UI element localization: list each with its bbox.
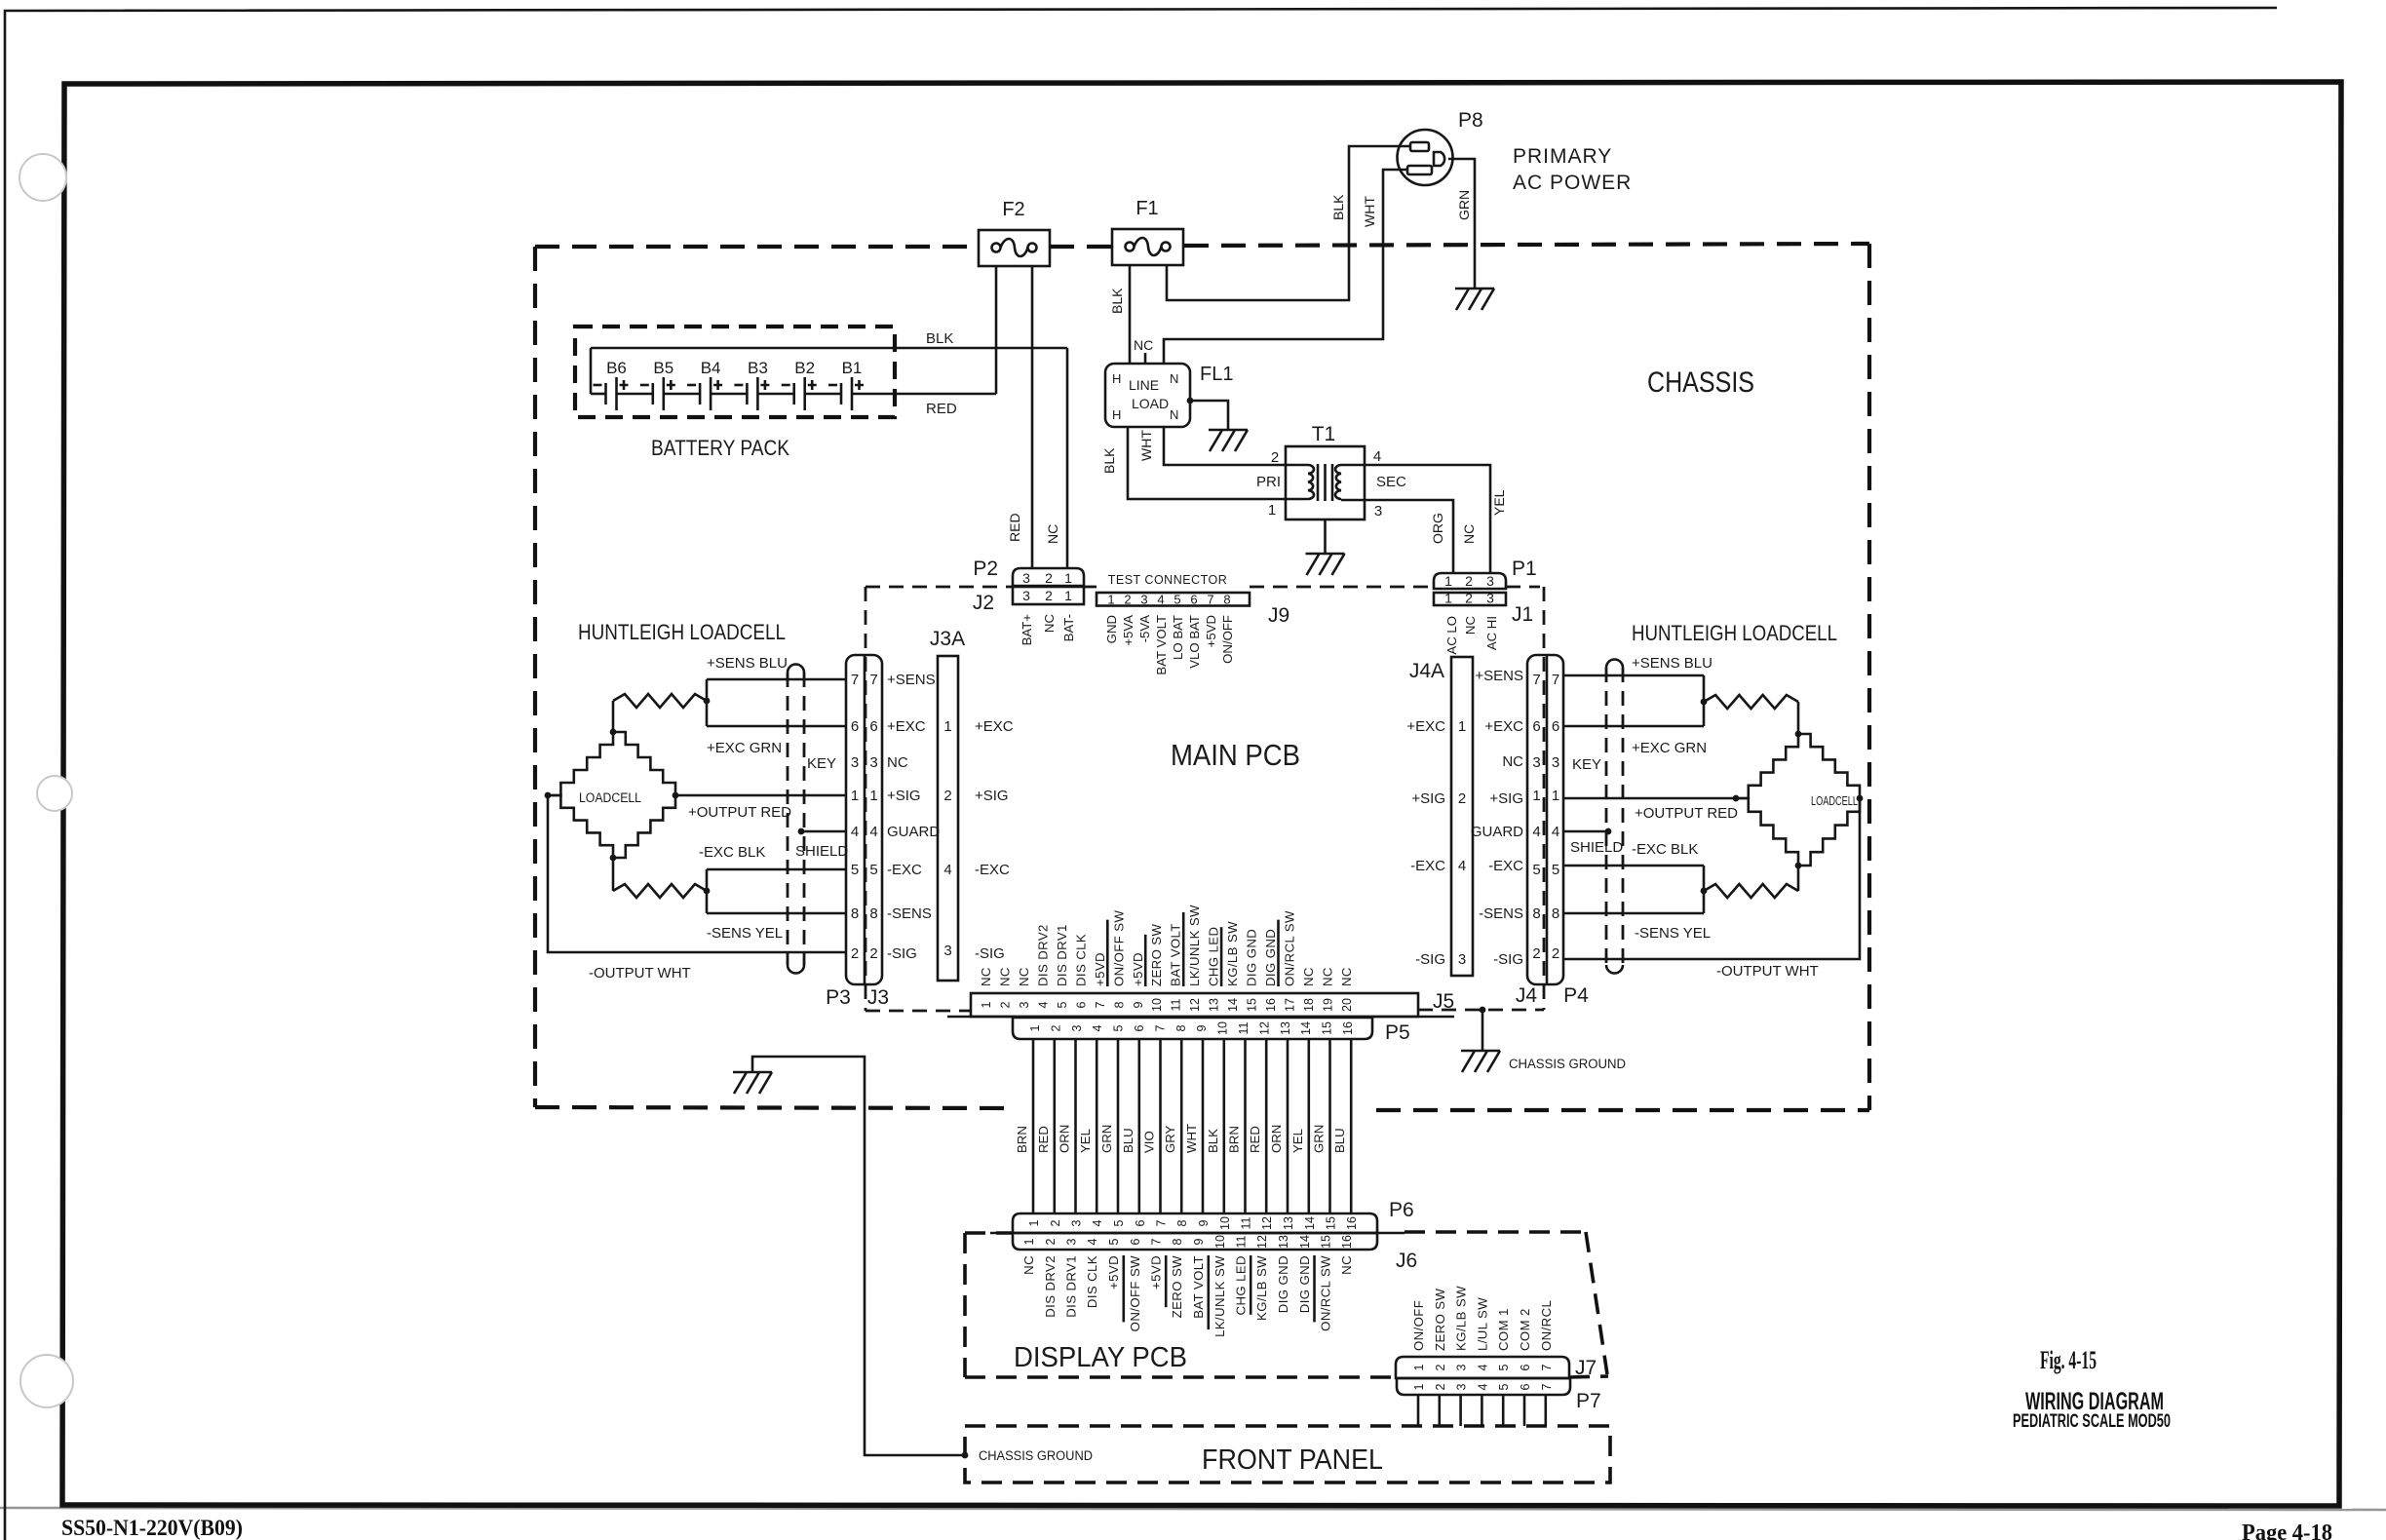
svg-text:+SENS BLU: +SENS BLU [1632,655,1713,672]
svg-text:1: 1 [943,718,951,735]
battery cell B3 [746,383,749,404]
svg-text:NC: NC [998,967,1013,986]
svg-text:NC: NC [1502,753,1523,770]
wire P5-10 to P6-10 (BLK) [1223,1039,1226,1213]
svg-text:+5VD: +5VD [1149,1255,1164,1290]
T1 primary winding [1308,465,1314,499]
T1 core [1317,464,1320,501]
svg-text:10: 10 [1218,1216,1232,1230]
AC plug P8 [1398,130,1453,185]
svg-text:3: 3 [1070,1024,1084,1031]
svg-text:8: 8 [851,905,859,922]
chassis ground junction dot on boundary [1480,1007,1486,1014]
svg-text:5: 5 [1112,1219,1126,1226]
svg-text:-SENS: -SENS [887,905,932,922]
wire P5-15 to P6-15 (GRN) [1328,1039,1331,1213]
svg-text:GRN: GRN [1099,1125,1114,1153]
battery cell B6 [604,383,607,404]
svg-text:12: 12 [1188,998,1202,1012]
svg-text:LOAD: LOAD [1132,396,1169,411]
svg-text:5: 5 [851,862,859,878]
svg-text:AC LO: AC LO [1444,616,1459,655]
wire +OUTPUT RED (right) [1563,797,1736,800]
ground symbol main PCB left [733,1071,772,1074]
fuse F2 [979,230,1050,266]
T1 secondary winding [1335,465,1341,499]
svg-text:-SIG: -SIG [887,945,917,962]
svg-text:5: 5 [1497,1364,1511,1370]
svg-text:5: 5 [1056,1001,1069,1008]
svg-text:PRI: PRI [1256,474,1281,490]
battery cell B4 [699,383,702,404]
svg-text:+SENS: +SENS [887,672,936,688]
svg-text:3: 3 [1455,1383,1469,1390]
svg-text:2: 2 [1465,591,1473,606]
svg-text:DIS DRV2: DIS DRV2 [1035,924,1050,986]
svg-text:DISPLAY PCB: DISPLAY PCB [1014,1342,1187,1373]
wire -OUTPUT WHT (right) [1563,798,1860,959]
svg-text:DIG GND: DIG GND [1263,929,1278,986]
svg-text:17: 17 [1284,998,1297,1012]
svg-text:4: 4 [1476,1364,1489,1370]
svg-text:SS50-N1-220V(B09): SS50-N1-220V(B09) [61,1516,243,1540]
svg-text:+EXC GRN: +EXC GRN [1632,740,1707,756]
connector P3/J3 (left) [846,655,882,984]
svg-text:7: 7 [851,672,859,688]
wire +EXC GRN (left) [707,725,846,728]
svg-text:2: 2 [1049,1219,1062,1226]
svg-text:RED: RED [1248,1126,1262,1153]
svg-text:P1: P1 [1512,558,1537,580]
svg-text:4: 4 [1552,824,1559,840]
wire GUARD / SHIELD (right) [1563,830,1608,833]
wire -EXC BLK (left) [707,868,846,871]
svg-text:11: 11 [1235,1235,1249,1248]
wire P5-7 to P6-7 (VIO) [1159,1039,1162,1213]
svg-text:H: H [1112,371,1121,386]
wire +SENS BLU (left) [707,678,846,681]
wire main PCB ground to front panel chassis ground [752,1057,965,1455]
wire P5-12 to P6-12 (RED) [1265,1039,1268,1213]
svg-text:2: 2 [869,945,877,962]
svg-text:COM 2: COM 2 [1518,1308,1532,1351]
svg-text:COM 1: COM 1 [1496,1308,1511,1351]
svg-text:4: 4 [943,862,951,878]
connector J3A [938,656,958,981]
svg-text:Fig. 4-15: Fig. 4-15 [2040,1346,2097,1374]
svg-text:MAIN PCB: MAIN PCB [1171,738,1300,772]
svg-text:J4A: J4A [1409,660,1444,682]
wire +EXC GRN (right) [1563,725,1704,728]
svg-text:2: 2 [999,1001,1013,1008]
svg-text:6: 6 [1552,718,1559,735]
svg-text:1: 1 [1444,591,1452,606]
svg-text:NC: NC [1045,524,1060,544]
wire P5-16 to P6-16 (BLU) [1350,1039,1353,1213]
chassis enclosure dashed box [535,245,979,249]
svg-text:P7: P7 [1576,1390,1601,1412]
svg-text:L/UL SW: L/UL SW [1475,1297,1489,1351]
svg-text:BAT VOLT: BAT VOLT [1154,615,1169,675]
test connector J9 [1097,593,1250,606]
svg-text:1: 1 [1458,718,1466,735]
svg-text:NC: NC [1301,967,1316,986]
svg-text:NC: NC [1042,614,1057,634]
svg-text:CHASSIS GROUND: CHASSIS GROUND [1509,1057,1626,1071]
svg-text:+SENS BLU: +SENS BLU [707,655,788,672]
svg-text:B5: B5 [653,359,673,377]
wire FL1 N load to T1 pin2 (WHT) [1164,427,1308,465]
binder hole top [19,154,66,201]
svg-text:LO BAT: LO BAT [1171,615,1185,660]
battery interconnect wire [664,393,700,396]
svg-text:ON/RCL SW: ON/RCL SW [1319,1255,1333,1331]
svg-text:ON/OFF: ON/OFF [1220,615,1235,664]
svg-text:J3A: J3A [930,628,965,650]
svg-text:11: 11 [1237,1021,1251,1034]
wire F1 left terminal to FL1 (BLK) [1129,266,1132,364]
wire F2 left terminal to battery RED [995,266,998,394]
svg-text:P8: P8 [1458,109,1483,132]
svg-text:B1: B1 [842,359,863,377]
svg-text:15: 15 [1321,1021,1334,1035]
svg-text:7: 7 [1552,672,1559,688]
svg-text:DIG GND: DIG GND [1297,1255,1312,1313]
ground symbol at FL1 [1209,429,1248,432]
svg-text:5: 5 [1174,593,1180,607]
svg-text:+OUTPUT RED: +OUTPUT RED [688,804,791,821]
svg-text:-EXC: -EXC [1410,858,1445,874]
svg-text:3: 3 [1374,503,1382,520]
svg-text:T1: T1 [1312,423,1336,445]
svg-text:8: 8 [1175,1219,1189,1226]
svg-text:-SENS YEL: -SENS YEL [1635,925,1711,942]
svg-text:8: 8 [1223,593,1230,607]
svg-text:18: 18 [1302,998,1316,1012]
wire T1 secondary pin3 to P1 pin1 (ORG) [1341,500,1453,573]
svg-text:RED: RED [1036,1126,1051,1153]
svg-text:CHG LED: CHG LED [1234,1255,1249,1315]
svg-text:4: 4 [851,824,859,840]
display PCB dashed box [965,1231,1013,1235]
svg-text:J7: J7 [1575,1357,1597,1379]
svg-text:6: 6 [1519,1383,1532,1390]
svg-text:1: 1 [1444,573,1452,589]
svg-text:4: 4 [1091,1219,1104,1226]
svg-text:7: 7 [1153,1024,1167,1031]
battery interconnect wire [805,393,841,396]
svg-text:2: 2 [851,945,859,962]
wire P5-11 to P6-11 (BRN) [1244,1039,1247,1213]
svg-text:+5VD: +5VD [1131,952,1145,986]
svg-text:LK/UNLK SW: LK/UNLK SW [1212,1255,1227,1337]
svg-text:P2: P2 [973,558,998,580]
svg-text:6: 6 [1074,1001,1088,1008]
svg-text:12: 12 [1260,1216,1274,1230]
svg-text:3: 3 [1455,1364,1469,1370]
svg-text:11: 11 [1240,1216,1253,1229]
svg-text:3: 3 [869,754,877,771]
svg-text:WHT: WHT [1362,196,1377,227]
svg-text:-SIG: -SIG [975,945,1005,962]
wire P5-6 to P6-6 (BLU) [1138,1039,1141,1213]
svg-text:8: 8 [1171,1238,1184,1245]
wire P8 lower blade WHT [1164,170,1407,364]
svg-text:KEY: KEY [807,755,836,772]
svg-text:9: 9 [1197,1219,1211,1226]
svg-text:YEL: YEL [1078,1129,1093,1153]
ground symbol chassis ground (main) [1461,1050,1500,1053]
svg-text:3: 3 [1458,951,1466,968]
svg-text:13: 13 [1208,998,1221,1012]
cable shield capsule (right) [1606,660,1623,669]
svg-text:ON/RCL: ON/RCL [1539,1300,1554,1351]
svg-text:-5VA: -5VA [1137,615,1152,643]
svg-text:15: 15 [1325,1216,1338,1230]
svg-text:12: 12 [1257,1021,1271,1035]
wire boundary to chassis ground below J5 [1482,1010,1484,1051]
wire F1 right terminal to plug P8 upper blade [1167,146,1410,300]
svg-text:7: 7 [869,672,877,688]
binder hole middle [37,776,72,811]
wire FL1 to chassis ground [1190,401,1228,430]
svg-text:CHG LED: CHG LED [1207,927,1221,986]
svg-text:ORG: ORG [1430,513,1445,544]
svg-text:KEY: KEY [1572,756,1601,773]
svg-text:NC: NC [1339,1255,1354,1275]
svg-text:20: 20 [1340,998,1354,1012]
binder hole bottom [20,1355,73,1407]
svg-text:NC: NC [1021,1255,1036,1275]
svg-text:+EXC: +EXC [1484,718,1523,735]
svg-text:16: 16 [1340,1235,1354,1249]
svg-text:ORN: ORN [1058,1125,1072,1153]
svg-text:BLU: BLU [1332,1128,1347,1153]
svg-text:ZERO SW: ZERO SW [1149,924,1164,986]
svg-text:6: 6 [869,718,877,735]
P7 pin stubs to front panel [1417,1395,1420,1426]
svg-text:3: 3 [1552,754,1559,771]
svg-text:+SIG: +SIG [887,788,921,804]
wire P8 ground pin GRN [1448,159,1475,289]
svg-text:P5: P5 [1385,1021,1410,1044]
front panel dashed box [965,1426,1610,1482]
svg-text:4: 4 [1373,448,1381,465]
svg-text:9: 9 [1132,1001,1145,1008]
svg-text:YEL: YEL [1290,1129,1305,1153]
svg-text:YEL: YEL [1491,489,1507,516]
svg-text:CHASSIS GROUND: CHASSIS GROUND [979,1448,1093,1463]
svg-text:1: 1 [1412,1364,1426,1370]
P6/J6 mating line [990,1232,1405,1235]
svg-text:-OUTPUT WHT: -OUTPUT WHT [1716,963,1819,980]
svg-text:7: 7 [1540,1364,1554,1370]
svg-text:2: 2 [1044,1238,1058,1245]
ground symbol at T1 [1306,553,1345,556]
battery RED wire to fuse F2 [852,393,996,396]
svg-text:6: 6 [1134,1219,1147,1226]
svg-text:BAT VOLT: BAT VOLT [1169,923,1183,986]
line filter FL1 [1105,364,1190,427]
svg-text:9: 9 [1195,1024,1209,1031]
svg-text:DIS DRV1: DIS DRV1 [1064,1255,1079,1318]
svg-text:ZERO SW: ZERO SW [1433,1289,1447,1351]
svg-text:10: 10 [1150,998,1164,1012]
svg-text:BAT VOLT: BAT VOLT [1191,1255,1206,1319]
svg-text:14: 14 [1303,1216,1317,1230]
main PCB dashed boundary [866,586,1013,589]
svg-text:J9: J9 [1268,604,1289,627]
svg-text:1: 1 [1028,1024,1042,1031]
wire -SENS YEL (left) [707,912,846,915]
cable shield capsule (left) [788,665,804,674]
wire P5-13 to P6-13 (ORN) [1287,1039,1289,1213]
svg-text:7: 7 [1150,1238,1164,1245]
svg-text:2: 2 [1045,588,1053,603]
svg-text:BLK: BLK [1206,1129,1220,1153]
wire +SENS BLU (right) [1563,674,1704,677]
svg-text:NC: NC [1461,524,1477,544]
svg-text:LOADCELL: LOADCELL [579,790,641,805]
svg-text:TEST CONNECTOR: TEST CONNECTOR [1108,573,1228,587]
svg-text:-EXC BLK: -EXC BLK [1632,841,1698,858]
svg-text:6: 6 [1532,718,1540,735]
svg-text:16: 16 [1264,998,1278,1012]
svg-text:4: 4 [1157,593,1164,607]
wire FL1 H load to T1 pin1 (BLK) [1128,427,1308,499]
svg-text:2: 2 [1434,1364,1447,1370]
svg-text:5: 5 [1552,862,1559,878]
svg-text:15: 15 [1246,998,1259,1012]
connector J6 [1013,1233,1377,1250]
svg-text:1: 1 [980,1001,993,1008]
battery interconnect wire [591,393,606,396]
svg-text:BLK: BLK [1330,194,1346,220]
battery pack dashed box [575,327,895,417]
svg-text:1: 1 [1064,588,1072,603]
svg-text:BLK: BLK [926,330,953,347]
svg-text:7: 7 [1540,1383,1554,1390]
svg-text:FL1: FL1 [1200,364,1233,385]
svg-text:AC POWER: AC POWER [1513,172,1632,194]
svg-text:B4: B4 [701,359,721,377]
svg-text:BRN: BRN [1227,1126,1242,1153]
resistor bottom arm (left loadcell) [612,858,615,891]
svg-text:1: 1 [1107,593,1114,607]
svg-text:ORN: ORN [1269,1125,1284,1153]
battery cell B2 [792,383,795,404]
connector P5 [1013,1018,1372,1039]
svg-text:3: 3 [1065,1238,1079,1245]
connector P6 [1013,1213,1377,1233]
svg-text:+5VD: +5VD [1106,1255,1121,1290]
svg-text:-SIG: -SIG [1493,951,1523,968]
svg-text:1: 1 [851,788,859,804]
battery cell B5 [651,383,654,404]
svg-text:+SENS: +SENS [1475,668,1523,684]
svg-text:1: 1 [1022,1238,1036,1245]
wire -SENS YEL (right) [1563,912,1704,915]
svg-text:3: 3 [1022,570,1030,586]
battery pack left edge [590,348,593,394]
svg-text:RED: RED [1007,513,1022,542]
svg-text:SHIELD: SHIELD [1570,839,1623,856]
svg-text:3: 3 [1532,754,1540,771]
svg-text:12: 12 [1255,1235,1269,1249]
svg-text:5: 5 [1532,862,1540,878]
loadcell bridge (left) [548,732,613,795]
svg-text:6: 6 [1519,1364,1532,1370]
T1 center tap to ground [1324,520,1327,554]
svg-text:1: 1 [1412,1383,1426,1390]
svg-text:CHASSIS: CHASSIS [1647,366,1754,399]
svg-text:F1: F1 [1135,198,1158,219]
svg-text:B6: B6 [606,359,627,377]
svg-text:+EXC: +EXC [887,718,926,735]
svg-text:6: 6 [1129,1238,1142,1245]
battery interconnect wire [617,393,653,396]
svg-text:NC: NC [1134,337,1153,353]
fuse F1 [1112,229,1183,265]
svg-text:8: 8 [1112,1001,1126,1008]
svg-text:BAT+: BAT+ [1020,614,1034,646]
svg-text:DIG GND: DIG GND [1276,1255,1290,1313]
battery interconnect wire [711,393,747,396]
svg-text:3: 3 [1140,593,1147,607]
svg-text:10: 10 [1216,1021,1230,1035]
svg-text:+OUTPUT RED: +OUTPUT RED [1635,805,1738,822]
svg-text:4: 4 [1476,1383,1489,1390]
svg-text:+EXC: +EXC [975,718,1014,735]
svg-text:J4: J4 [1516,984,1538,1007]
svg-text:N: N [1170,407,1178,422]
resistor top arm (right loadcell) [1797,702,1800,734]
svg-text:1: 1 [1552,788,1559,804]
svg-text:ZERO SW: ZERO SW [1170,1255,1184,1318]
wire T1 secondary pin4 to P1 pin3 (YEL) [1341,465,1490,573]
svg-text:1: 1 [1268,502,1276,519]
svg-text:11: 11 [1170,998,1183,1011]
svg-text:9: 9 [1192,1238,1206,1245]
svg-text:J5: J5 [1433,990,1454,1013]
svg-text:BRN: BRN [1015,1126,1029,1153]
svg-text:-SIG: -SIG [1415,951,1445,968]
svg-text:8: 8 [869,905,877,922]
connector J1 [1434,593,1506,605]
svg-text:16: 16 [1345,1216,1359,1230]
svg-text:ON/OFF: ON/OFF [1411,1300,1426,1351]
svg-text:VIO: VIO [1142,1131,1157,1153]
wire +OUTPUT RED (left) [675,794,846,797]
loadcell bridge (right) [1736,734,1798,798]
svg-text:13: 13 [1279,1021,1292,1035]
svg-text:3: 3 [1022,588,1030,603]
connector J5 [971,993,1418,1017]
svg-text:BLK: BLK [1109,288,1125,314]
connector J2 [1013,587,1084,604]
connector P2 [1013,568,1084,586]
svg-text:+5VD: +5VD [1093,952,1107,986]
svg-text:3: 3 [1486,573,1494,589]
svg-text:4: 4 [869,824,877,840]
svg-text:NC: NC [1463,616,1478,635]
svg-text:FRONT PANEL: FRONT PANEL [1202,1444,1383,1476]
svg-text:5: 5 [1107,1238,1121,1245]
svg-text:1: 1 [1532,788,1540,804]
wire P5-4 to P6-4 (YEL) [1096,1039,1098,1213]
svg-text:WHT: WHT [1138,430,1154,461]
svg-text:GRY: GRY [1163,1125,1177,1153]
